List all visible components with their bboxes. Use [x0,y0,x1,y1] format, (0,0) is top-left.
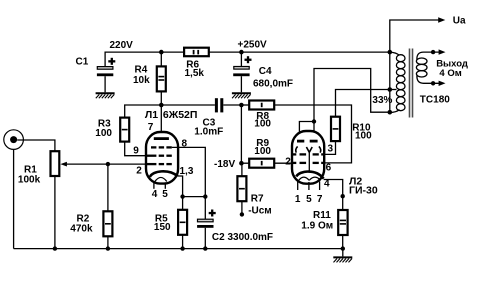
wire grid tube1 to pot [66,163,146,165]
wire pin 1,3 to cathode node [178,176,183,197]
capacitor C2 [197,197,213,249]
node bus R11 [341,246,345,250]
svg-text:6Ж52П: 6Ж52П [163,109,198,121]
svg-text:R7: R7 [251,194,264,205]
pin 5 stub tube L2 [308,182,310,190]
node -Ucm terminal [240,212,244,216]
svg-text:5: 5 [306,194,312,205]
svg-text:Л1: Л1 [145,109,158,121]
svg-text:7: 7 [317,194,323,205]
node primary tap [388,87,393,92]
tube L2 cathode [296,172,323,179]
resistor R9 [241,159,292,168]
node primary bottom [388,110,393,115]
svg-text:8: 8 [182,139,188,150]
svg-text:6: 6 [326,163,332,174]
wire pin8 to cathode node [172,147,206,196]
capacitor C3 [215,98,242,112]
resistor R4 [157,52,166,105]
pin 4 stub tube L1 [153,182,155,189]
tube L1 heater [155,177,167,181]
tube L2 envelope [292,131,324,184]
svg-text:33%: 33% [372,95,392,106]
node cathode tube L2 [341,194,345,198]
svg-text:1: 1 [295,194,301,205]
arrow output top [439,49,446,54]
node bus C2 [203,246,207,250]
svg-text:1.9 Ом: 1.9 Ом [301,221,333,232]
svg-text:1,3: 1,3 [180,166,194,177]
tube L2 heater [299,177,321,180]
wire +250V rail left segment [105,52,184,67]
svg-text:1,5k: 1,5k [185,68,205,79]
capacitor C4 [233,52,249,92]
tube L1 grid row pin2 [146,163,172,165]
transformer secondary coil [416,52,439,83]
node R4 top [159,50,164,55]
resistor R6 [184,48,209,57]
pin 5 stub tube L1 [164,182,166,188]
transformer primary coil [390,52,405,113]
svg-text:R11: R11 [313,210,331,221]
svg-text:680,0mF: 680,0mF [253,79,293,90]
ground (C1) [96,93,115,98]
node bus R2 [106,246,110,250]
resistor R8 [241,101,274,110]
svg-text:470k: 470k [70,224,93,235]
node secondary top [431,50,435,54]
tube L2 grid row pin2 pin6 [292,162,324,164]
resistor R3 [120,118,146,156]
svg-text:4 Ом: 4 Ом [439,68,461,79]
node bus R1 [53,246,57,250]
node anode2 [312,119,316,123]
tube L1 envelope [146,132,178,184]
node primary top [388,50,393,55]
wire left anode branch tube2 [299,122,314,141]
wire R8 to pin6 [274,105,351,163]
svg-text:4: 4 [152,189,158,200]
svg-text:100: 100 [254,146,271,157]
ground (C4) [232,93,251,98]
node R2 top [106,162,110,166]
resistor R11 [338,210,347,249]
svg-text:-18V: -18V [214,159,235,170]
svg-text:2: 2 [285,157,291,168]
wire +250V rail right segment [209,51,390,53]
wire anode tube2 to transformer [314,69,390,141]
svg-text:150: 150 [154,222,171,233]
node cathode2 [203,194,207,198]
node secondary bottom [431,81,435,85]
input jack [4,130,24,249]
tube L1 grid row pin8 [151,146,172,148]
capacitor C1 [97,67,113,93]
potentiometer R1 [17,140,67,249]
svg-text:4: 4 [324,178,330,189]
node C4 junction [239,50,244,55]
arrow output bottom [439,81,446,86]
tube L2 grid row pin3 [292,153,324,155]
svg-text:10k: 10k [133,75,150,86]
tube L1 cathode [150,171,178,177]
transformer core [410,49,413,118]
resistor R5 [178,197,187,249]
node C3-R8 junction [239,103,244,108]
tube L2 left plate [297,140,304,143]
wire pin4 to R11 [324,180,343,211]
svg-text:100: 100 [95,128,112,139]
svg-text:-Uсм: -Uсм [248,206,272,217]
tube L1 plate [154,137,169,140]
resistor R2 [103,164,112,249]
wire pin7 lead [160,105,162,139]
tube L2 beam plates and shield [296,146,321,170]
resistor R7 [237,163,246,213]
svg-text:Ua: Ua [453,15,466,26]
svg-text:C1: C1 [76,56,89,67]
pin 7 stub tube L2 [319,181,321,190]
svg-text:220V: 220V [110,40,134,51]
svg-text:5: 5 [162,189,168,200]
svg-text:100: 100 [355,130,372,141]
wire ground bus [14,248,343,250]
label + C2 [209,210,216,217]
node anode1 junction [159,103,164,108]
svg-text:7: 7 [148,122,154,133]
svg-text:2: 2 [136,166,142,177]
svg-text:C4: C4 [259,66,272,77]
tube L2 right plate [310,140,318,143]
svg-text:100: 100 [254,119,271,130]
resistor R10 [324,117,340,155]
svg-text:ГИ-30: ГИ-30 [349,185,378,197]
svg-text:100k: 100k [18,175,41,186]
svg-text:3: 3 [328,143,334,154]
wire anode node tube1 [125,105,215,118]
svg-text:1.0mF: 1.0mF [194,127,223,138]
tube L1 grid row pin9 [146,155,172,157]
wire -18V riser [240,105,242,163]
svg-text:TC180: TC180 [420,95,450,106]
label + C4 [245,56,252,63]
arrow Ua [438,17,445,22]
svg-text:+250V: +250V [238,40,268,51]
wire Ua [390,20,439,52]
label + C1 [108,58,115,65]
node bus R5 [180,246,184,250]
wire 33% tap to R10 [336,90,390,117]
node cathode1 [180,194,184,198]
wire cathode node link [183,196,206,198]
svg-text:9: 9 [133,146,139,157]
pin 1 stub tube L2 [297,181,299,190]
svg-text:C2 3300.0mF: C2 3300.0mF [212,232,273,243]
ground (bus) [333,249,352,263]
node -18V junction [239,161,244,166]
